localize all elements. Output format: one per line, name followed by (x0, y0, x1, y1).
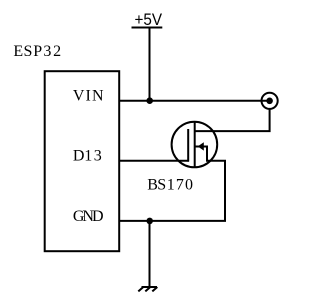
svg-text:VIN: VIN (73, 88, 104, 105)
svg-text:D13: D13 (73, 148, 102, 165)
svg-text:+5V: +5V (135, 10, 163, 29)
svg-text:BS170: BS170 (147, 176, 193, 193)
svg-text:GND: GND (73, 208, 104, 225)
svg-text:ESP32: ESP32 (13, 43, 61, 60)
